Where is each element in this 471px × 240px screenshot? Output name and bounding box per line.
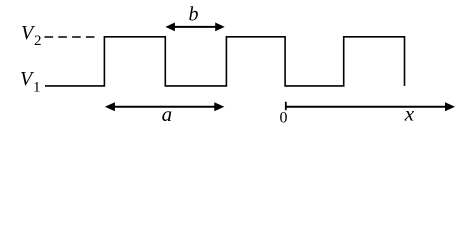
svg-text:0: 0 (280, 110, 288, 127)
label V2 (21, 22, 42, 49)
waveform square wave (45, 37, 405, 86)
arrow b (double-headed) (165, 23, 224, 32)
dashed line at V2 level (45, 36, 96, 38)
svg-text:a: a (162, 102, 173, 126)
x axis with origin tick and right arrowhead (286, 102, 455, 112)
svg-text:2: 2 (34, 33, 42, 49)
arrow a (double-headed) (105, 102, 224, 111)
svg-text:x: x (404, 102, 415, 126)
svg-text:b: b (189, 4, 199, 26)
svg-text:1: 1 (33, 80, 41, 96)
label V1 (20, 68, 41, 96)
